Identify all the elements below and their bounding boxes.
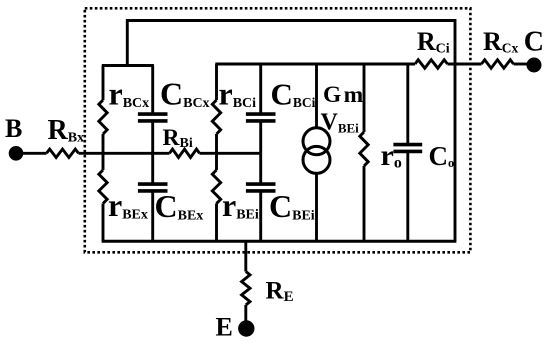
- svg-text:CBCx: CBCx: [160, 76, 210, 112]
- capacitor C_BEi: [259, 153, 262, 184]
- svg-text:rBCi: rBCi: [219, 76, 257, 112]
- top bar of rBCx/CBCx pair: [102, 64, 154, 67]
- capacitor C_BCi: [259, 64, 262, 113]
- svg-text:CBEi: CBEi: [269, 188, 315, 224]
- svg-text:RCi: RCi: [417, 27, 450, 57]
- terminal E: [238, 320, 254, 336]
- resistor R_Bi: [170, 149, 200, 157]
- resistor R_Bx: [47, 149, 79, 157]
- svg-text:Co: Co: [429, 141, 455, 171]
- svg-text:rBCx: rBCx: [109, 76, 150, 112]
- resistor R_Cx: [482, 60, 514, 68]
- collector rail: [215, 63, 415, 66]
- capacitor C_BEx: [151, 153, 154, 184]
- capacitor C_o: [406, 64, 409, 143]
- resistor r_BEi: [215, 153, 218, 170]
- terminal B: [9, 146, 24, 161]
- top feedback wire: [127, 21, 455, 66]
- dotted boundary box of extrinsic/intrinsic model: [85, 8, 471, 252]
- current source Gm circles: [303, 128, 330, 155]
- resistor R_E: [242, 272, 250, 306]
- resistor r_o: [363, 64, 366, 132]
- emitter rail: [102, 240, 457, 243]
- wire B to R_Bx: [22, 152, 47, 155]
- resistor r_BEx: [102, 153, 105, 170]
- wire R_Ci to R_Cx: [448, 63, 482, 66]
- right wall of intrinsic box: [454, 64, 457, 241]
- resistor R_Ci: [415, 60, 448, 68]
- svg-text:RBx: RBx: [48, 115, 85, 146]
- svg-text:B: B: [5, 114, 22, 143]
- emitter stub wire: [244, 241, 247, 271]
- svg-text:E: E: [216, 313, 233, 342]
- svg-text:CBEx: CBEx: [155, 188, 204, 224]
- terminal C: [527, 58, 542, 73]
- wire R_Bi to node B2: [200, 152, 261, 155]
- svg-text:Gm: Gm: [323, 82, 364, 108]
- svg-text:RE: RE: [266, 278, 294, 306]
- svg-text:CBCi: CBCi: [271, 77, 316, 112]
- svg-text:C: C: [524, 27, 544, 58]
- capacitor C_BCx: [151, 66, 154, 113]
- resistor r_BCi: [215, 64, 218, 100]
- svg-text:RCx: RCx: [483, 27, 519, 56]
- wire node B1 rail: [79, 152, 170, 155]
- controlled current source Gm branch: [315, 64, 318, 130]
- resistor r_BCx: [102, 66, 105, 101]
- wire R_Cx to C terminal: [514, 63, 529, 66]
- svg-text:RBi: RBi: [163, 125, 193, 151]
- svg-text:VBEi: VBEi: [321, 110, 360, 136]
